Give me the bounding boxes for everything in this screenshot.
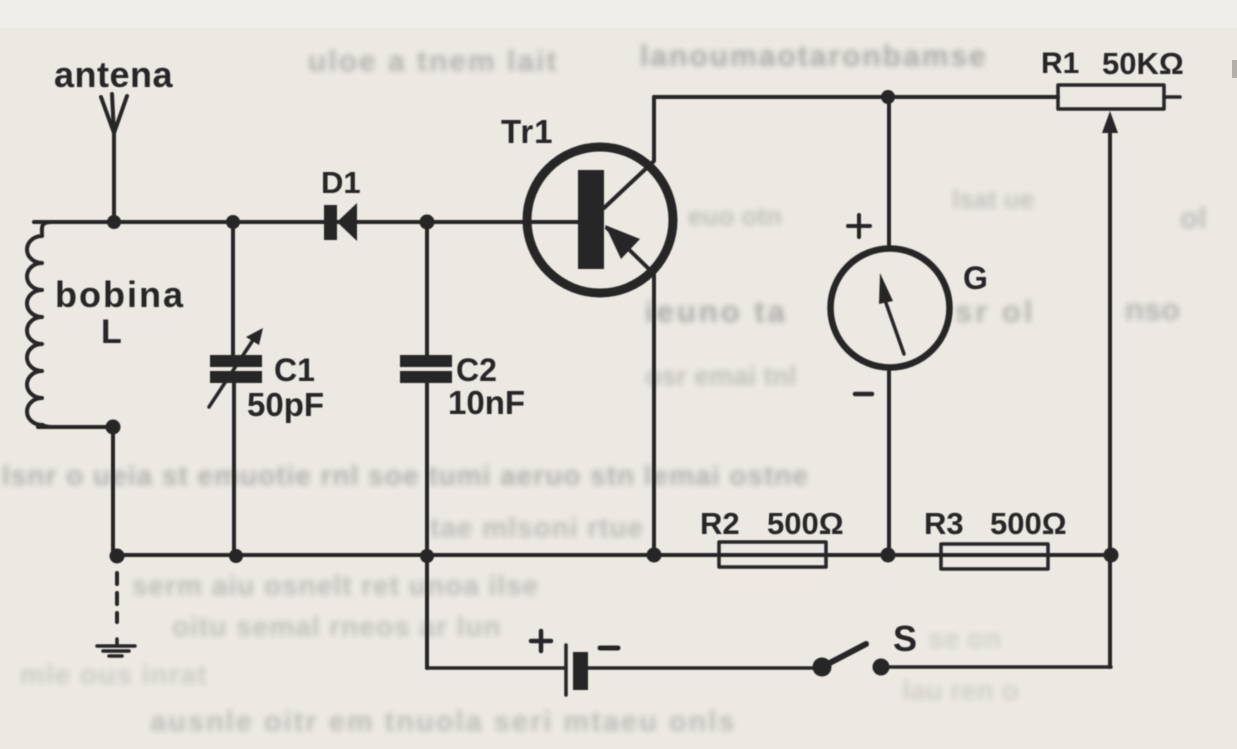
switch S pivot contact	[813, 658, 832, 677]
antenna mast wire	[112, 132, 116, 222]
svg-text:G: G	[963, 260, 988, 296]
transistor Tr1 base bar	[578, 170, 604, 269]
node D1/C2 junction	[420, 215, 435, 230]
wire top rail	[654, 95, 1058, 99]
battery negative plate	[573, 652, 588, 690]
capacitor C1 top lead	[231, 222, 235, 356]
transistor Tr1 circle	[527, 147, 673, 293]
resistor R2 body	[719, 542, 826, 567]
svg-text:euo otn: euo otn	[688, 201, 782, 231]
svg-text:500Ω: 500Ω	[767, 506, 844, 541]
wire R1 right stub	[1164, 95, 1180, 99]
svg-text:mle ous inrat: mle ous inrat	[20, 659, 207, 690]
transistor Tr1 collector line	[604, 97, 654, 208]
switch S right contact	[873, 659, 890, 676]
svg-text:ol: ol	[1180, 202, 1207, 235]
galvanometer G top lead	[887, 97, 891, 248]
svg-text:D1: D1	[321, 165, 361, 200]
inductor L (bobina)	[27, 222, 52, 427]
capacitor C2 bottom plate	[400, 371, 452, 383]
capacitor C1 variable arrowhead	[246, 328, 263, 345]
svg-text:uloe a tnem lait: uloe a tnem lait	[308, 45, 558, 78]
ground dashed lead	[115, 573, 119, 622]
svg-text:ieuno ta: ieuno ta	[645, 294, 788, 329]
svg-text:500Ω: 500Ω	[990, 506, 1067, 541]
resistor R3 body	[941, 544, 1048, 569]
node rail meter junction	[881, 548, 896, 563]
svg-text:oitu semal rneos ar lun: oitu semal rneos ar lun	[172, 611, 502, 642]
svg-text:50KΩ: 50KΩ	[1102, 46, 1184, 81]
svg-text:nso: nso	[1125, 292, 1180, 327]
svg-text:C2: C2	[456, 352, 497, 388]
node rail C2 junction	[420, 549, 434, 563]
node rail left junction	[110, 549, 125, 564]
node antenna junction	[107, 215, 121, 229]
svg-text:L: L	[101, 313, 122, 351]
svg-text:lanoumaotaronbamse: lanoumaotaronbamse	[640, 40, 988, 73]
wire coil bottom vertical	[111, 427, 115, 555]
svg-text:50pF: 50pF	[247, 386, 324, 423]
svg-text:antena: antena	[54, 54, 174, 95]
node C1 top junction	[226, 215, 240, 229]
capacitor C2 bottom lead	[425, 383, 429, 556]
svg-text:serm aiu osnelt ret unoa ilse: serm aiu osnelt ret unoa ilse	[132, 570, 539, 601]
wire battery to switch	[588, 666, 815, 670]
switch S lever	[822, 644, 866, 667]
label meter minus	[855, 392, 872, 397]
svg-text:C1: C1	[274, 352, 315, 388]
galvanometer G needle arrowhead	[879, 273, 893, 304]
capacitor C1 variable arrow shaft	[209, 337, 255, 407]
diode D1 cathode bar	[324, 205, 337, 240]
label battery plus	[531, 631, 551, 651]
svg-text:lsat ue: lsat ue	[952, 184, 1034, 214]
potentiometer R1 wiper arrowhead	[1102, 111, 1118, 133]
wire coil bottom horizontal	[38, 425, 113, 429]
transistor Tr1 emitter line	[607, 228, 654, 555]
wire switch to right vertical	[890, 665, 1111, 669]
capacitor C1 bottom plate	[210, 371, 262, 383]
galvanometer G needle	[886, 303, 904, 354]
svg-text:R1: R1	[1041, 47, 1079, 80]
node top rail meter junction	[881, 90, 895, 104]
label meter plus	[848, 215, 870, 237]
svg-text:Tr1: Tr1	[501, 113, 554, 150]
svg-text:R2: R2	[700, 506, 740, 541]
wire main top horizontal (coil to transistor base)	[34, 220, 578, 224]
transistor Tr1 emitter arrowhead	[605, 225, 640, 259]
svg-text:ausnle oitr em tnuola seri mta: ausnle oitr em tnuola seri mtaeu onls	[150, 706, 736, 738]
battery positive plate	[564, 645, 568, 695]
capacitor C1 top plate	[210, 355, 262, 367]
potentiometer R1 wiper arrow line	[1108, 128, 1112, 667]
svg-text:lsnr o ueia st emuotie rnl soe: lsnr o ueia st emuotie rnl soe tumi aeru…	[2, 460, 809, 491]
galvanometer G bottom lead	[887, 370, 891, 555]
svg-text:sr ol: sr ol	[955, 294, 1035, 329]
svg-text:tae mlsoni rtue: tae mlsoni rtue	[430, 512, 644, 543]
svg-text:se on: se on	[928, 623, 1001, 654]
capacitor C2 top plate	[400, 355, 452, 367]
antenna fan	[101, 94, 127, 133]
potentiometer R1 body	[1058, 85, 1164, 109]
galvanometer G circle	[831, 249, 950, 368]
svg-text:osr emai tnl: osr emai tnl	[645, 361, 797, 391]
wire lower rail	[117, 553, 1111, 557]
svg-text:S: S	[893, 618, 917, 659]
node rail C1 junction	[229, 549, 243, 563]
capacitor C1 bottom lead	[232, 383, 236, 556]
node rail emitter junction	[647, 548, 662, 563]
node coil bottom junction	[106, 420, 121, 435]
node rail right junction	[1104, 548, 1119, 563]
svg-text:10nF: 10nF	[448, 384, 525, 421]
ground symbol	[97, 639, 135, 656]
wire battery left	[427, 666, 564, 670]
svg-text:R3: R3	[924, 506, 964, 541]
label battery minus	[600, 646, 618, 651]
diode D1 arrow triangle	[337, 203, 357, 241]
wire battery branch vertical from C2	[425, 556, 429, 668]
capacitor C2 top lead	[425, 222, 429, 356]
svg-text:bobina: bobina	[55, 274, 185, 315]
svg-text:lau ren o: lau ren o	[902, 675, 1019, 706]
